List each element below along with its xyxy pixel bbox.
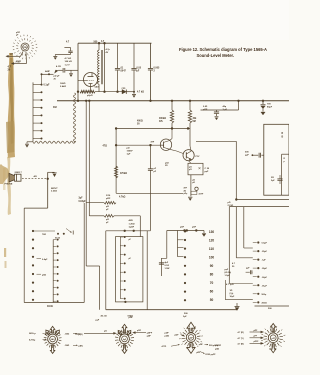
- svg-text:70Ω: 70Ω: [42, 234, 46, 236]
- tube V1 cathode: [89, 83, 93, 85]
- svg-text:µ4Ω: µ4Ω: [215, 347, 219, 350]
- svg-text:100: 100: [209, 255, 215, 259]
- switch S1 ladder: [32, 82, 34, 139]
- svg-text:250Ω: 250Ω: [262, 302, 267, 304]
- tube socket diagram V4 bottom center: [197, 338, 200, 341]
- transistor Q2: [183, 150, 194, 161]
- ground bottom bus: [236, 303, 238, 306]
- resistor row y215: [89, 215, 104, 217]
- svg-text:NOIL,µ: NOIL,µ: [29, 333, 37, 335]
- svg-text:µΩF: µΩF: [106, 198, 111, 200]
- wire left rail: [77, 43, 79, 101]
- tube V1 envelope: [84, 73, 98, 87]
- svg-text:4.1Ω: 4.1Ω: [56, 65, 61, 68]
- svg-text:400kΩ: 400kΩ: [159, 117, 166, 120]
- wire x147 right edge: [146, 231, 148, 310]
- svg-text:0.84µF: 0.84µF: [79, 200, 87, 203]
- svg-text:(41.5k): (41.5k): [225, 271, 232, 274]
- svg-text:µµF: µµF: [245, 155, 250, 157]
- svg-text:µΩ: µΩ: [106, 219, 109, 221]
- ground G2 under mic line: [70, 70, 72, 73]
- svg-text:Sound-Level Meter.: Sound-Level Meter.: [197, 53, 235, 58]
- component between boxes: [161, 258, 163, 276]
- svg-text:Figure 12. Schematic diagram: Figure 12. Schematic diagram of Type 156…: [179, 47, 267, 52]
- svg-text:µΩF: µΩF: [203, 109, 208, 111]
- svg-text:75V: 75V: [267, 104, 271, 106]
- capacitor C2 vertical: [117, 43, 119, 68]
- svg-text:INPUT: INPUT: [51, 188, 58, 190]
- svg-text:0.1Ω: 0.1Ω: [165, 265, 170, 267]
- svg-text:.1µF: .1µF: [262, 260, 267, 262]
- svg-text:µ2µΩ: µ2µΩ: [87, 95, 93, 97]
- svg-text:4.7 (Y): 4.7 (Y): [238, 337, 244, 340]
- wire from bus down x86: [85, 101, 87, 203]
- ground at ladder top: [203, 231, 205, 234]
- wire x140 down: [139, 216, 141, 237]
- svg-text:.01µF: .01µF: [262, 285, 268, 287]
- svg-text:µΩFF: µΩFF: [254, 341, 260, 343]
- svg-text:50: 50: [210, 298, 214, 302]
- svg-text:µΩF: µΩF: [165, 333, 170, 335]
- tap 450: [37, 273, 42, 275]
- svg-text:6AU: 6AU: [51, 338, 55, 341]
- long B- bus: [57, 100, 289, 102]
- capacitor C30 with ground: [216, 110, 218, 112]
- contact dots col: [184, 230, 186, 232]
- svg-text:µΩ: µΩ: [228, 202, 231, 204]
- svg-text:4.7µ: 4.7µ: [106, 48, 111, 51]
- wire module to ground: [190, 175, 192, 197]
- wire node line y128: [116, 128, 190, 130]
- svg-text:6µ5: 6µ5: [123, 339, 126, 341]
- svg-text:PHONE: PHONE: [5, 184, 13, 186]
- wire socket V3 right: [133, 332, 136, 334]
- svg-text:500µ: 500µ: [262, 294, 267, 296]
- bottom right line 500: [255, 305, 290, 307]
- svg-text:4.7kΩ: 4.7kΩ: [119, 196, 125, 199]
- svg-text:100kF: 100kF: [127, 151, 134, 153]
- meter M1: [195, 187, 198, 190]
- svg-text:µΩ: µΩ: [106, 206, 109, 208]
- phone jack J1: [15, 174, 22, 181]
- svg-text:4.7 kΩ: 4.7 kΩ: [65, 57, 72, 60]
- svg-text:µ(R): µ(R): [79, 345, 83, 347]
- scan stain streak left edge: [8, 53, 15, 158]
- svg-text:4.7 1µΩ: 4.7 1µΩ: [226, 283, 234, 286]
- wire to socket pin 2: [14, 63, 27, 65]
- electrolytic C31: [262, 101, 264, 104]
- wire from bus down x89: [88, 101, 90, 216]
- svg-text:1µΩF: 1µΩF: [129, 227, 135, 229]
- svg-text:A-µΩ: A-µΩ: [75, 333, 80, 336]
- wire B+ top rail: [78, 42, 152, 44]
- capacitor C1a vertical: [64, 47, 70, 49]
- tube socket diagram V1 (top left): [32, 47, 34, 49]
- ground after diode: [133, 92, 135, 94]
- filter cap bank line: [238, 101, 240, 110]
- tube V1 plate: [88, 76, 94, 78]
- transistor Q1 FET: [160, 139, 171, 150]
- svg-text:.05µF: .05µF: [262, 268, 268, 270]
- svg-text:4.7 (B): 4.7 (B): [238, 342, 244, 345]
- svg-text:1.5µF: 1.5µF: [225, 275, 231, 277]
- svg-text:µΩ2: µΩ2: [165, 163, 169, 165]
- svg-text:1.2 V: 1.2 V: [65, 64, 71, 66]
- svg-text:DOE µµFF: DOE µµFF: [206, 354, 217, 356]
- svg-text:4.7 (R): 4.7 (R): [238, 331, 244, 334]
- meter box outer: [106, 230, 151, 232]
- resistor row y202: [86, 202, 104, 204]
- wiper arrow: [66, 229, 72, 233]
- capacitor C4 vertical: [150, 43, 152, 68]
- svg-text:60: 60: [210, 290, 214, 294]
- svg-text:40-1Ω: 40-1Ω: [101, 315, 107, 318]
- svg-text:µΩF: µΩF: [129, 317, 134, 319]
- svg-text:1.5W: 1.5W: [165, 268, 170, 270]
- svg-text:.25µF: .25µF: [262, 251, 268, 253]
- cap select contacts col3: [253, 242, 257, 244]
- svg-text:µΩ µF: µΩ µF: [54, 76, 61, 78]
- svg-text:410Ω: 410Ω: [47, 305, 53, 308]
- svg-text:µΩFF: µΩFF: [147, 333, 153, 335]
- svg-text:0.05: 0.05: [137, 68, 142, 70]
- svg-text:80µF: 80µF: [267, 107, 273, 109]
- svg-text:P1V: P1V: [196, 156, 201, 158]
- wires into cap ladder: [243, 207, 245, 248]
- wire down from jack node: [47, 172, 49, 208]
- junction lines lower right: [235, 198, 237, 200]
- svg-text:µ-µΩF: µ-µΩF: [215, 345, 222, 347]
- filter module FL1: [188, 163, 203, 175]
- svg-text:µΩ: µΩ: [104, 331, 107, 333]
- shield dashed vertical: [73, 93, 75, 142]
- attenuator ladder S4: [167, 230, 204, 232]
- tube socket diagram V5 bottom right: [280, 338, 283, 341]
- svg-text:4.7 kΩ: 4.7 kΩ: [137, 91, 144, 94]
- capacitor C10: [148, 168, 153, 170]
- series capacitor C1b on mic line: [55, 70, 59, 73]
- svg-text:0.005: 0.005: [154, 68, 160, 70]
- svg-text:µΩF: µΩF: [147, 336, 152, 338]
- arrowhead input lead: [6, 55, 9, 57]
- svg-text:C 20: C 20: [205, 168, 210, 170]
- ladder left drop: [166, 231, 168, 259]
- capacitor C34: [277, 178, 282, 180]
- svg-text:470kΩ: 470kΩ: [120, 172, 127, 175]
- svg-text:160Ω: 160Ω: [60, 83, 66, 85]
- svg-text:0.5µF: 0.5µF: [262, 243, 268, 245]
- svg-text:3 µF: 3 µF: [223, 109, 228, 111]
- svg-text:3µF: 3µF: [79, 198, 84, 200]
- svg-text:200Ω 7: 200Ω 7: [15, 172, 23, 174]
- wire to socket pin: [9, 55, 21, 57]
- svg-text:2.2kΩ: 2.2kΩ: [51, 191, 57, 193]
- svg-text:90: 90: [210, 264, 214, 268]
- tube socket diagram V3 bottom center-left: [131, 339, 134, 342]
- wire x150 long vertical: [149, 145, 151, 168]
- tube V1 grid: [87, 80, 94, 82]
- resistor R10 vertical: [171, 101, 173, 110]
- tube socket diagram V2 bottom left: [59, 339, 62, 342]
- wire left rail x116: [115, 129, 117, 194]
- svg-text:120: 120: [209, 238, 215, 242]
- svg-text:70: 70: [210, 281, 214, 285]
- svg-text:µΩµ: µΩµ: [184, 193, 188, 195]
- svg-text:1µF: 1µF: [127, 154, 131, 156]
- svg-text:.02µF: .02µF: [262, 277, 268, 279]
- range switch box left: [24, 207, 48, 209]
- svg-text:µµF: µµF: [205, 171, 210, 173]
- svg-text:µΩ: µΩ: [127, 148, 130, 150]
- svg-text:21.5Ω: 21.5Ω: [228, 205, 234, 207]
- transformer T1 winding: [98, 50, 100, 84]
- svg-text:AΩ: AΩ: [34, 175, 38, 178]
- svg-text:110: 110: [209, 247, 214, 251]
- svg-text:1Ω: 1Ω: [230, 290, 233, 292]
- cathode bus with resistor row: [80, 90, 95, 93]
- svg-text:2.4kΩ: 2.4kΩ: [60, 85, 66, 88]
- svg-text:400Ω: 400Ω: [137, 120, 143, 123]
- svg-text:41TF: 41TF: [199, 193, 204, 196]
- svg-text:(7µ): (7µ): [230, 293, 234, 295]
- svg-text:AMP: AMP: [45, 70, 50, 73]
- resistor R12 on x116: [115, 166, 118, 178]
- series cap row: [246, 271, 250, 273]
- gate wire y145: [116, 144, 163, 146]
- svg-text:5M: 5M: [193, 121, 196, 123]
- ladder stub rail: [177, 231, 179, 257]
- switch S2 contacts col1: [32, 230, 34, 232]
- ladder ground: [32, 139, 34, 142]
- capacitor C3 vertical: [133, 43, 135, 68]
- svg-text:40Ω: 40Ω: [129, 219, 133, 222]
- meter box bottom bus: [106, 309, 237, 311]
- ground G1 cluster: [55, 54, 70, 56]
- svg-text:80: 80: [210, 273, 214, 277]
- svg-text:1.20Ω: 1.20Ω: [129, 223, 135, 225]
- transformer T1 core: [100, 50, 102, 84]
- svg-text:AMP: AMP: [16, 60, 22, 63]
- diode CR1: [122, 90, 126, 94]
- switch S2 contacts col2: [52, 240, 54, 303]
- svg-text:-50Ω: -50Ω: [65, 345, 70, 347]
- inner box: [116, 237, 143, 302]
- inner box right: [281, 154, 283, 195]
- FET to Q2 wire: [169, 149, 176, 151]
- svg-text:µΩΩ: µΩΩ: [165, 335, 170, 337]
- wire x236 down: [235, 141, 237, 199]
- svg-text:130: 130: [209, 230, 215, 234]
- battery box right: [264, 124, 289, 195]
- ladder feed network: [42, 73, 54, 75]
- wire box C top: [196, 140, 236, 142]
- resistor R11 vertical: [189, 101, 191, 110]
- wire x86 continues to bottom: [85, 203, 87, 266]
- svg-text:4TΩ: 4TΩ: [102, 144, 107, 147]
- svg-text:6AU: 6AU: [95, 86, 100, 89]
- ground below module: [188, 196, 192, 198]
- switch S3 contacts: [119, 237, 121, 299]
- shield dashed horizontal: [33, 141, 76, 143]
- svg-text:A.TΩµ: A.TΩµ: [29, 339, 36, 342]
- ground at jack top: [48, 171, 55, 173]
- svg-text:0.1µF: 0.1µF: [44, 85, 51, 87]
- wire plate feed x104.5: [104, 43, 106, 91]
- svg-text:-50Ω: -50Ω: [65, 334, 70, 336]
- dashed link to switch: [22, 178, 46, 180]
- wire bottom row: [225, 299, 252, 301]
- svg-text:10µF: 10µF: [230, 296, 236, 298]
- svg-text:4.TΩ: 4.TΩ: [162, 345, 167, 348]
- svg-text:0.4µF: 0.4µF: [42, 258, 48, 261]
- svg-text:µ5Ω: µ5Ω: [42, 274, 46, 276]
- tap 0.47: [37, 258, 42, 260]
- svg-text:2Ω: 2Ω: [271, 177, 274, 179]
- line y193 lower: [116, 192, 183, 194]
- transformer connections: [98, 43, 100, 50]
- contacts pair: [57, 233, 59, 235]
- svg-text:100 kΩ: 100 kΩ: [65, 61, 72, 63]
- svg-text:.0047: .0047: [120, 70, 126, 73]
- capacitor C33 into box: [252, 154, 258, 156]
